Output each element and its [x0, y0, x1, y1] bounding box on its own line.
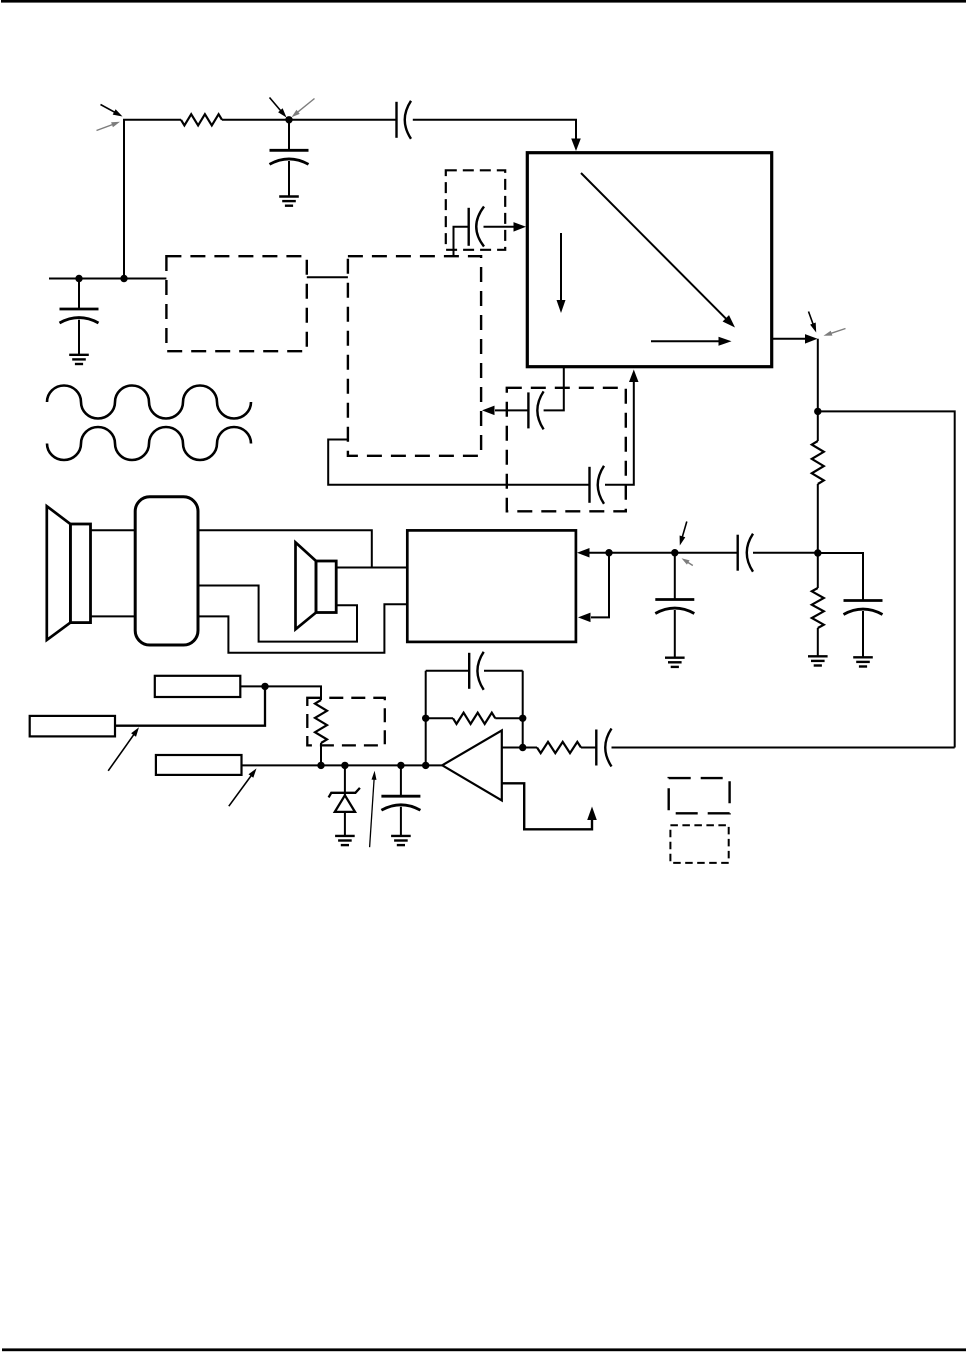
main audio rail	[242, 764, 443, 766]
feedback top wire right	[484, 670, 523, 672]
ground below C8	[665, 658, 685, 667]
wire node H down to label B wire	[115, 686, 265, 725]
feedback resistor R5	[453, 713, 495, 724]
ground below C2	[279, 197, 299, 206]
capacitor C9	[844, 601, 883, 615]
feedback top wire to capacitor C10	[426, 670, 470, 672]
arrow at output corner	[805, 334, 818, 344]
node H junction	[261, 683, 268, 690]
wire R6 to capacitor C11	[581, 747, 596, 749]
legend dashed box (long dash)	[669, 778, 730, 813]
ground below R3	[808, 656, 828, 665]
label box C	[156, 755, 242, 775]
ground below zener	[335, 836, 355, 845]
resistor R2	[812, 441, 824, 484]
capacitor C6	[590, 466, 605, 504]
resistor R4	[315, 700, 327, 743]
wire C4 left lead to filter block	[454, 227, 469, 256]
ground below C9	[853, 657, 873, 666]
zener diode anode triangle	[335, 795, 355, 812]
node C junction	[120, 275, 127, 282]
dashed block (varactor)	[446, 170, 505, 250]
op-amp U1	[442, 730, 502, 800]
sound wave squiggle (lower)	[47, 427, 251, 460]
wire C6 up to mixer bottom	[605, 380, 634, 485]
capacitor C12	[381, 796, 420, 810]
arrow into mixer box left	[514, 222, 527, 232]
wire C4 right lead toward mixer	[484, 226, 514, 228]
callout arrow (gray) at input corner	[97, 122, 121, 131]
wire C8 to ground	[674, 610, 676, 658]
dashed block (preamp stage)	[166, 256, 306, 351]
input resistor R6	[537, 742, 581, 753]
wire corner down to node D	[817, 339, 819, 412]
legend dashed box (short dash)	[670, 825, 728, 863]
wire R4 to main rail	[320, 743, 322, 765]
node D junction	[814, 408, 821, 415]
small speaker cone	[296, 542, 317, 629]
op-amp second input wire	[502, 783, 592, 829]
wire mixer bottom to capacitor C5	[544, 367, 564, 411]
capacitor C11	[596, 729, 611, 767]
capacitor C3	[60, 309, 99, 323]
down arrow inside mixer box	[557, 233, 566, 313]
wire node E to capacitor C9	[818, 553, 863, 601]
wire C12 to ground	[400, 807, 402, 836]
node J junction	[341, 762, 348, 769]
node B junction	[75, 275, 82, 282]
ground below C3	[69, 355, 89, 364]
dashed box around resistor R4	[307, 698, 385, 746]
arrow into mixer box bottom	[629, 370, 639, 383]
wire label A to node H	[240, 685, 265, 687]
wire R3 to ground	[817, 628, 819, 656]
wire horn bottom to transducer	[91, 615, 136, 617]
wire C2 to ground	[288, 161, 290, 197]
wire small speaker bottom net	[198, 586, 357, 642]
capacitor C5	[528, 391, 543, 429]
mixer/IF block (solid box)	[527, 153, 771, 367]
wire C1 to big box top entry	[413, 120, 576, 140]
capacitor C12 lead	[400, 765, 402, 796]
callout arrow at label B wire	[108, 727, 139, 771]
capacitor C1 (series)	[397, 101, 412, 139]
feedback resistor leads	[426, 717, 523, 719]
node F junction	[605, 549, 612, 556]
dashed block (coupling network)	[507, 388, 626, 512]
label box A	[155, 676, 241, 697]
arrow into filter block right	[482, 406, 495, 416]
wire node H to resistor R4	[265, 686, 321, 700]
wire input corner to resistor R1	[124, 120, 181, 279]
callout arrow (gray) at output corner	[824, 329, 846, 336]
audio amplifier block (solid box)	[407, 530, 576, 642]
node L junction	[422, 762, 429, 769]
wire C7 to node E	[753, 552, 818, 554]
resistor R3	[812, 588, 824, 628]
zener diode lead	[344, 765, 346, 795]
arrow into mixer box top	[571, 139, 581, 152]
page bottom rule	[2, 1348, 966, 1351]
op-amp non-inverting input wire	[502, 747, 537, 749]
diagonal arrow inside mixer box	[581, 173, 735, 328]
zener diode cathode bar	[329, 788, 360, 798]
feedback left branch	[425, 671, 427, 766]
node I junction	[317, 762, 324, 769]
arrow pointing up (mute line)	[587, 807, 597, 821]
wire audio line	[590, 552, 738, 554]
node N junction	[519, 715, 526, 722]
horn speaker driver	[70, 524, 90, 623]
capacitor C2	[270, 150, 309, 164]
node E junction	[814, 549, 821, 556]
wire mixer output to corner	[772, 338, 805, 340]
zener to ground	[344, 812, 346, 836]
capacitor C3 lead	[78, 279, 80, 310]
callout arrow (black) at output corner	[809, 312, 817, 333]
wire node E to resistor R3	[817, 553, 819, 588]
wire R2 to node E	[817, 484, 819, 553]
ground below C12	[391, 836, 411, 845]
wire C9 to ground	[862, 611, 864, 657]
node G junction	[671, 549, 678, 556]
callout arrow (gray) at node A	[292, 99, 315, 118]
callout arrow at label C wire	[229, 768, 257, 806]
transducer capsule (rounded box)	[135, 497, 198, 645]
node O junction	[519, 744, 526, 751]
wire left rail	[49, 278, 166, 280]
arrow into audio amp right (in1)	[577, 548, 590, 558]
wire transducer to amp (top net)	[198, 530, 372, 567]
right arrow inside mixer box	[651, 337, 732, 346]
wire node D to resistor R2	[817, 411, 819, 441]
node A junction	[285, 116, 292, 123]
horn speaker cone	[47, 506, 71, 640]
dashed block (filter stage)	[348, 256, 481, 456]
wire R1 to node A	[222, 119, 289, 121]
arrow into audio amp right (in2)	[578, 613, 591, 623]
node K junction	[397, 762, 404, 769]
wire C5 to filter block	[495, 409, 528, 411]
wire C11 to feedback line	[612, 747, 955, 749]
feedback wire node D to far right and down	[818, 411, 955, 747]
wire node A to capacitor C1	[289, 119, 397, 121]
feedback right branch	[522, 671, 524, 748]
capacitor C8	[655, 600, 694, 614]
callout arrow (gray) at node G	[682, 558, 693, 565]
capacitor C8 lead from node G	[674, 553, 676, 600]
wire C3 to ground	[78, 320, 80, 355]
capacitor C2 lead from node A	[288, 120, 290, 151]
callout arrow (black) at node G	[680, 522, 687, 546]
callout arrow at zener node	[370, 771, 377, 847]
node M junction	[422, 715, 429, 722]
small speaker driver	[316, 561, 336, 613]
callout arrow (black) at node A	[270, 98, 287, 118]
wire speaker to amp in (top)	[336, 567, 407, 569]
capacitor C4 (varactor)	[469, 207, 484, 247]
wire node F down to amp in2	[591, 553, 609, 618]
page top rule	[1, 0, 966, 3]
callout arrow (black) at input corner	[101, 105, 123, 117]
sound wave squiggle (upper)	[47, 386, 251, 419]
wire transducer bottom net to amp	[198, 604, 407, 653]
label box B	[30, 716, 115, 737]
capacitor C7 (series audio)	[738, 534, 753, 572]
resistor R1	[181, 114, 222, 125]
wire filter block to capacitor C6	[328, 440, 589, 485]
wire horn top to transducer	[91, 529, 136, 531]
wire between dashed blocks	[307, 276, 348, 278]
capacitor C10 (feedback)	[469, 652, 484, 690]
